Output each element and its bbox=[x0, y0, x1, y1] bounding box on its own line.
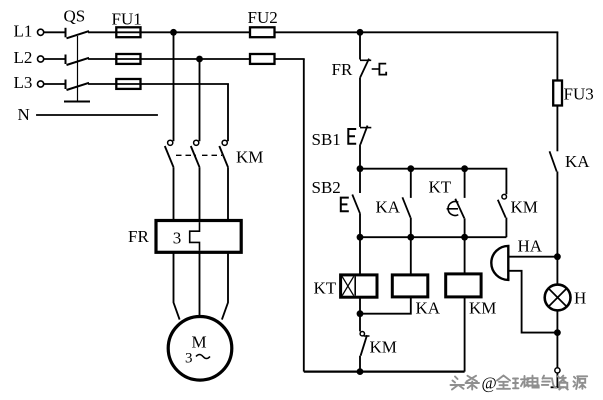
svg-text:KT: KT bbox=[314, 279, 337, 298]
svg-text:FU3: FU3 bbox=[564, 85, 594, 104]
svg-text:@: @ bbox=[482, 373, 497, 392]
svg-text:FR: FR bbox=[332, 60, 353, 79]
svg-text:KM: KM bbox=[236, 148, 263, 167]
svg-text:HA: HA bbox=[518, 237, 543, 256]
svg-text:L3: L3 bbox=[14, 73, 33, 92]
svg-text:QS: QS bbox=[64, 7, 86, 26]
svg-text:N: N bbox=[18, 105, 30, 124]
svg-text:L2: L2 bbox=[14, 48, 33, 67]
svg-text:3: 3 bbox=[185, 351, 193, 367]
svg-text:KA: KA bbox=[416, 299, 441, 318]
svg-text:FU2: FU2 bbox=[248, 8, 278, 27]
svg-text:M: M bbox=[192, 333, 207, 352]
svg-text:KA: KA bbox=[565, 152, 590, 171]
svg-text:KT: KT bbox=[429, 177, 452, 196]
svg-text:KM: KM bbox=[511, 197, 538, 216]
svg-text:H: H bbox=[574, 288, 586, 307]
svg-text:KA: KA bbox=[376, 198, 401, 217]
svg-text:3: 3 bbox=[173, 229, 182, 248]
svg-text:FR: FR bbox=[128, 227, 149, 246]
svg-text:KM: KM bbox=[469, 299, 496, 318]
svg-text:SB2: SB2 bbox=[312, 178, 341, 197]
svg-text:KM: KM bbox=[370, 338, 397, 357]
svg-text:FU1: FU1 bbox=[112, 10, 142, 29]
svg-text:SB1: SB1 bbox=[312, 130, 341, 149]
svg-text:L1: L1 bbox=[14, 21, 33, 40]
